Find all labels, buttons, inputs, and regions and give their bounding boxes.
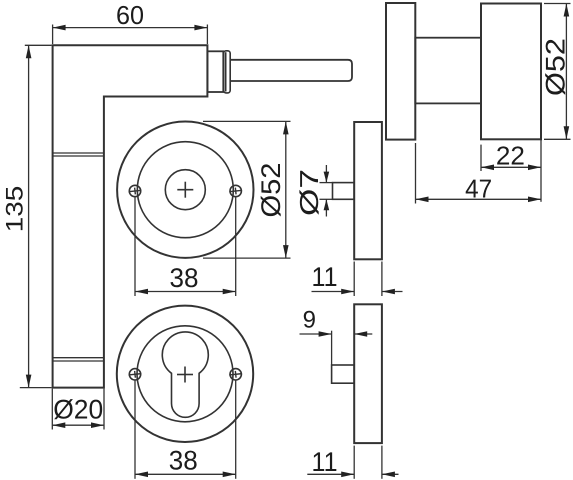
dimension D52 side view bbox=[541, 4, 571, 140]
dimension D52 rosette bbox=[203, 121, 291, 258]
svg-text:47: 47 bbox=[465, 174, 492, 204]
dimension D7 bbox=[294, 165, 333, 217]
rosette 1 middle circle bbox=[137, 142, 233, 238]
dimension D20 bbox=[52, 389, 104, 430]
svg-text:9: 9 bbox=[303, 307, 316, 334]
rosette side profile 1 spindle boss bbox=[333, 183, 355, 200]
svg-text:11: 11 bbox=[312, 447, 338, 477]
spindle rod bbox=[230, 60, 352, 81]
rosette 1 outer circle bbox=[117, 122, 253, 258]
dimension 11 profile 2 bbox=[307, 446, 398, 479]
rosette 2 left screw bbox=[128, 369, 141, 380]
rosette 1 center cross bbox=[177, 182, 193, 198]
spindle neck bbox=[207, 51, 223, 92]
handle side view lever bar bbox=[386, 3, 415, 140]
svg-text:135: 135 bbox=[2, 186, 29, 233]
rosette 2 outer circle bbox=[117, 306, 253, 442]
dimension 38 rosette 2 bbox=[135, 381, 236, 479]
svg-text:Ø20: Ø20 bbox=[53, 395, 103, 425]
handle side view neck bbox=[415, 38, 481, 104]
dimension 135 bbox=[2, 45, 52, 387]
grip joint line upper bbox=[53, 153, 104, 156]
rosette 2 middle circle bbox=[137, 326, 233, 422]
dimension 22 bbox=[481, 139, 541, 202]
rosette 2 right screw bbox=[229, 369, 242, 380]
svg-text:Ø7: Ø7 bbox=[294, 169, 324, 216]
lever handle front view outline bbox=[53, 45, 208, 387]
svg-text:38: 38 bbox=[169, 446, 198, 476]
svg-text:11: 11 bbox=[312, 262, 338, 292]
svg-text:38: 38 bbox=[170, 263, 199, 293]
svg-text:22: 22 bbox=[496, 141, 525, 171]
spindle collar ring bbox=[224, 51, 231, 93]
dimension 38 rosette 1 bbox=[135, 198, 236, 297]
dimension 9 bbox=[300, 307, 373, 365]
svg-text:60: 60 bbox=[116, 0, 144, 30]
rosette side profile 1 plate bbox=[354, 122, 382, 259]
dimension 47 bbox=[416, 143, 542, 204]
svg-text:Ø52: Ø52 bbox=[256, 163, 286, 218]
svg-text:Ø52: Ø52 bbox=[541, 38, 571, 96]
handle side view rose bbox=[481, 4, 541, 140]
rosette side profile 2 plate bbox=[354, 304, 382, 443]
dimension 11 profile 1 bbox=[312, 262, 403, 297]
grip joint line lower bbox=[53, 358, 104, 361]
euro cylinder keyhole bbox=[162, 332, 208, 417]
rosette 2 center cross bbox=[177, 367, 193, 383]
rosette 1 right screw bbox=[229, 185, 242, 196]
rosette side profile 2 cylinder boss bbox=[332, 365, 355, 383]
dimension 60 bbox=[53, 0, 208, 44]
rosette 1 hub circle bbox=[165, 170, 205, 210]
rosette 1 left screw bbox=[128, 185, 141, 196]
